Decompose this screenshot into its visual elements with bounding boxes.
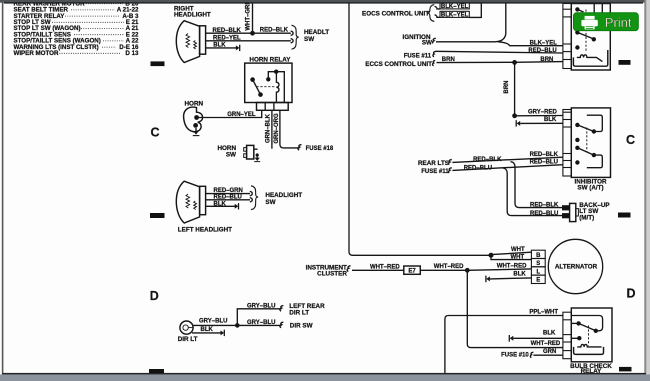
ignition switch inner base bbox=[573, 50, 607, 66]
svg-text:(M/T): (M/T) bbox=[579, 215, 594, 222]
bulb check connector column bbox=[563, 312, 571, 359]
inhibitor connector column bbox=[563, 110, 571, 177]
svg-text:E7: E7 bbox=[408, 269, 416, 275]
wire WHT-RED to alternator L bbox=[467, 269, 531, 270]
left headlight lamp body bbox=[176, 181, 199, 223]
bulb check relay contacts bbox=[571, 322, 578, 324]
right headlight filament 1 bbox=[186, 34, 190, 48]
ground arrow dir lt bbox=[221, 330, 225, 335]
boxed label BLK-YEL lower bbox=[440, 11, 469, 17]
wire BLK alternator E bbox=[490, 278, 532, 279]
svg-text:WHT–RED: WHT–RED bbox=[370, 264, 400, 270]
svg-text:SW: SW bbox=[226, 151, 236, 158]
svg-text:FUSE #18: FUSE #18 bbox=[306, 146, 334, 152]
svg-text:ALTERNATOR: ALTERNATOR bbox=[555, 264, 598, 271]
wire BLK inhibitor bbox=[520, 122, 563, 124]
svg-text:RED–BLK: RED–BLK bbox=[530, 203, 559, 209]
hook left rear dir lt bbox=[280, 306, 283, 312]
horn relay contact dot B bbox=[258, 92, 263, 97]
horn relay wire D right bbox=[276, 72, 284, 103]
inhibitor arms bbox=[577, 125, 594, 132]
ignition switch connector column bbox=[563, 4, 571, 69]
wire riser WHT-RED to bulb check relay bbox=[467, 270, 563, 347]
horn relay wire C up bbox=[268, 72, 276, 80]
svg-text:RED–BLK: RED–BLK bbox=[213, 28, 242, 34]
left headlight filament 2 bbox=[194, 201, 197, 210]
svg-text:BLK: BLK bbox=[214, 201, 227, 207]
node GRY-RED junction bbox=[512, 113, 517, 118]
index dotted leaders bbox=[52, 4, 124, 54]
svg-text:D: D bbox=[150, 289, 159, 303]
svg-text:RED–BLU: RED–BLU bbox=[530, 211, 558, 217]
horn relay switch arm bbox=[253, 80, 261, 95]
wire branch RED-BLK to back-up bbox=[511, 162, 563, 208]
inhibitor bottom hook bbox=[587, 155, 603, 168]
hook fuse 10 bbox=[530, 352, 533, 357]
registration tick right middle bbox=[618, 213, 631, 218]
svg-text:FUSE #11: FUSE #11 bbox=[421, 169, 449, 175]
scan bottom border line bbox=[2, 373, 646, 375]
svg-text:BLK–YEL: BLK–YEL bbox=[441, 4, 469, 10]
svg-text:DIR LT: DIR LT bbox=[178, 336, 198, 343]
right gray column bbox=[646, 0, 650, 381]
horn relay box bbox=[245, 63, 292, 102]
wire BLK right headlight bbox=[206, 47, 237, 49]
horn switch symbol bbox=[247, 145, 254, 159]
svg-text:WHT–RED: WHT–RED bbox=[434, 264, 464, 270]
brace EOCS bbox=[428, 5, 435, 22]
wire GRN-ORG drop to fuse 18 bbox=[280, 110, 300, 148]
svg-text:WHT–RED: WHT–RED bbox=[531, 341, 561, 347]
svg-text:BRN: BRN bbox=[442, 57, 455, 63]
ignition switch dashed link bbox=[585, 10, 587, 52]
svg-text:PPL–WHT: PPL–WHT bbox=[529, 310, 558, 316]
svg-text:REAR LTS: REAR LTS bbox=[418, 160, 449, 167]
wire riser to left rear dir lt bbox=[237, 309, 281, 326]
svg-text:WHT: WHT bbox=[511, 247, 525, 253]
wire WHT-RED to E7 bbox=[352, 269, 404, 271]
node BRN junction bbox=[512, 60, 517, 65]
wire RED-BLU fuse 11 lower bbox=[452, 165, 563, 171]
wire WHT-RED E7 to junction bbox=[420, 269, 467, 271]
brace to HEADLIGHT SW bbox=[251, 186, 258, 210]
horn relay connector tabs bbox=[257, 103, 289, 111]
svg-text:ECCS CONTROL UNIT: ECCS CONTROL UNIT bbox=[365, 61, 432, 68]
wire PPL-WHT from page bottom bbox=[445, 316, 563, 374]
bulb check relay breaker bbox=[577, 344, 601, 346]
alternator body bbox=[548, 239, 602, 293]
bulb check relay dashed link bbox=[588, 326, 590, 346]
ignition switch top stubs bbox=[593, 0, 595, 14]
hook dir sw bbox=[280, 322, 283, 328]
wire WHT to alternator S bbox=[491, 255, 531, 259]
svg-text:CLUSTER: CLUSTER bbox=[317, 270, 347, 277]
fuse 18 hook bbox=[298, 145, 301, 151]
svg-text:GRY–RED: GRY–RED bbox=[528, 110, 557, 116]
ground arrow inhibitor BLK bbox=[515, 120, 517, 126]
ignition switch breaker bbox=[577, 55, 603, 62]
svg-text:HEADLIGHT: HEADLIGHT bbox=[174, 12, 211, 19]
horn body bbox=[184, 107, 203, 132]
wire BRN riser bbox=[514, 62, 516, 115]
svg-text:GRY–BLU: GRY–BLU bbox=[247, 320, 275, 326]
wire RED-GRN left headlight bbox=[206, 193, 250, 195]
svg-text:BLK–YEL: BLK–YEL bbox=[530, 41, 558, 47]
wire WHT to alternator B bbox=[491, 252, 531, 254]
registration tick right bottom bbox=[619, 367, 632, 372]
alternator terminal blocks bbox=[531, 250, 545, 283]
svg-text:DIR LT: DIR LT bbox=[289, 309, 309, 316]
svg-text:GRY–BLU: GRY–BLU bbox=[247, 303, 275, 309]
svg-text:E: E bbox=[536, 278, 540, 284]
svg-text:RED–BLK: RED–BLK bbox=[473, 157, 502, 163]
svg-text:RED–BLU: RED–BLU bbox=[214, 195, 242, 201]
hook eccs bbox=[432, 60, 435, 65]
svg-text:SW: SW bbox=[304, 36, 314, 43]
wire GRY-RED bbox=[515, 115, 563, 117]
svg-text:RED–BLU: RED–BLU bbox=[464, 165, 492, 171]
bulb check relay inner base bbox=[574, 347, 604, 355]
svg-text:BLK–YEL: BLK–YEL bbox=[441, 12, 469, 18]
svg-text:HEADLT: HEADLT bbox=[304, 29, 329, 36]
wire RED-BLU left headlight bbox=[206, 199, 250, 201]
svg-text:WHT–RED: WHT–RED bbox=[497, 264, 527, 270]
wire GRN-BLK drop bbox=[271, 110, 273, 148]
wire GRN-YEL horn to relay bbox=[199, 110, 262, 117]
svg-text:BLK: BLK bbox=[201, 327, 214, 333]
ground arrow left headlight bbox=[235, 204, 239, 209]
svg-text:D: D bbox=[627, 286, 636, 300]
horn switch ground bbox=[256, 153, 259, 156]
svg-text:SW (A/T): SW (A/T) bbox=[577, 185, 603, 192]
svg-text:DIR SW: DIR SW bbox=[290, 323, 313, 330]
wire stubs EOCS to right bbox=[469, 3, 481, 18]
registration tick right top bbox=[619, 60, 631, 65]
left headlight filament 1 bbox=[186, 194, 190, 208]
wire BLK dir lt bbox=[192, 332, 221, 334]
registration tick left top bbox=[151, 61, 165, 66]
svg-text:SW: SW bbox=[422, 40, 432, 47]
ignition switch contacts bbox=[575, 7, 579, 11]
svg-text:RED–YEL: RED–YEL bbox=[213, 35, 241, 41]
node junction dir lt bbox=[235, 323, 240, 328]
svg-text:SW: SW bbox=[265, 199, 275, 206]
svg-text:GRN–BLK: GRN–BLK bbox=[265, 113, 271, 143]
wire GRN bulb check bbox=[533, 354, 563, 356]
print button bbox=[574, 13, 639, 31]
inhibitor switch box bbox=[571, 108, 610, 177]
svg-text:L: L bbox=[536, 269, 540, 275]
wire RED-BLU fuse 11 bbox=[436, 51, 563, 53]
top chrome band bbox=[0, 0, 645, 3]
hook ignition sw bbox=[433, 38, 436, 43]
wire branch RED-BLU to back-up bbox=[503, 168, 563, 216]
bulb check relay top link bbox=[571, 316, 602, 331]
hook rear lts bbox=[449, 160, 452, 165]
wire GRY-BLU dir lt bbox=[193, 324, 237, 326]
svg-text:B: B bbox=[536, 253, 541, 259]
svg-text:Print: Print bbox=[605, 15, 632, 30]
wire WHT-GRN riser bbox=[252, 3, 254, 33]
wire long vertical to WHT junction bbox=[349, 3, 491, 256]
wire BLK left headlight bbox=[206, 205, 235, 207]
horn relay contact dot A bbox=[250, 77, 255, 82]
svg-text:WHT–GRN: WHT–GRN bbox=[245, 0, 251, 30]
svg-text:C: C bbox=[151, 125, 160, 139]
svg-text:RED–GRN: RED–GRN bbox=[214, 188, 243, 194]
svg-text:GRY–BLU: GRY–BLU bbox=[199, 318, 227, 324]
boxed label BLK-YEL upper bbox=[440, 3, 469, 9]
svg-text:FUSE #11: FUSE #11 bbox=[404, 53, 432, 59]
hook instrument cluster bbox=[347, 266, 350, 272]
horn terminal dots bbox=[194, 115, 199, 120]
svg-text:HORN RELAY: HORN RELAY bbox=[249, 56, 291, 63]
back-up light switch connector bbox=[562, 205, 570, 210]
svg-text:BLK: BLK bbox=[513, 271, 526, 277]
registration tick left bottom bbox=[149, 369, 164, 373]
scan top border line bbox=[4, 2, 643, 3]
svg-text:RED–BLK: RED–BLK bbox=[260, 28, 289, 34]
inhibitor top hook bbox=[587, 115, 603, 131]
svg-text:S: S bbox=[536, 261, 540, 267]
node junction WHT-GRN / RED-BLK bbox=[250, 31, 255, 36]
svg-text:FUSE #10: FUSE #10 bbox=[501, 352, 529, 358]
bulb check relay box bbox=[571, 308, 612, 362]
svg-text:WHT: WHT bbox=[511, 255, 525, 261]
svg-text:D 13: D 13 bbox=[125, 50, 139, 57]
svg-text:GRN: GRN bbox=[543, 349, 556, 355]
svg-text:GRN–ORG: GRN–ORG bbox=[274, 113, 280, 144]
horn relay coil bbox=[276, 72, 279, 103]
wire RED-YEL right headlight bbox=[206, 40, 291, 42]
horn relay contact dot C bbox=[266, 77, 270, 81]
node WHT-RED junction bbox=[465, 268, 470, 273]
svg-text:RED–BLK: RED–BLK bbox=[530, 152, 559, 158]
DIR LT bulb bbox=[180, 321, 193, 334]
registration tick left middle bbox=[150, 213, 165, 218]
scan right border line bbox=[644, 0, 646, 374]
bottom scrollbar bar bbox=[0, 374, 650, 381]
hook fuse 11 lower bbox=[449, 168, 452, 173]
wire GRY-BLU to dir sw bbox=[237, 324, 281, 326]
horn ground bbox=[195, 128, 197, 131]
ground arrow alternator E bbox=[485, 276, 487, 283]
printer icon bbox=[585, 16, 595, 20]
wire BLK-YEL ignition sw bbox=[436, 3, 506, 42]
svg-text:LEFT HEADLIGHT: LEFT HEADLIGHT bbox=[178, 226, 232, 233]
svg-text:RED–BLU: RED–BLU bbox=[528, 48, 556, 54]
svg-text:RED–BLU: RED–BLU bbox=[530, 159, 558, 165]
right headlight lamp body bbox=[176, 21, 199, 63]
ignition switch box bbox=[571, 4, 610, 71]
hook fuse 11 top bbox=[433, 51, 436, 56]
horn relay dashed link bbox=[257, 86, 276, 88]
svg-text:EOCS CONTROL UNIT: EOCS CONTROL UNIT bbox=[362, 10, 429, 17]
index list top-left bbox=[14, 0, 140, 57]
wire RED-BLK right headlight bbox=[206, 32, 291, 34]
svg-text:BLK: BLK bbox=[213, 43, 226, 49]
inhibitor contacts left bbox=[575, 123, 579, 127]
wire BRN eccs bbox=[437, 61, 515, 63]
svg-text:BLK: BLK bbox=[544, 117, 557, 123]
horn relay contact dot D bbox=[274, 70, 278, 74]
ground arrow bulb check BLK bbox=[508, 335, 510, 342]
svg-text:GRN–YEL: GRN–YEL bbox=[227, 112, 256, 118]
wire BLK bulb check bbox=[513, 337, 563, 339]
inhibitor dashed link bbox=[586, 128, 588, 152]
brace to HEADLT SW bbox=[292, 25, 299, 49]
wire RED-BLK rear lts bbox=[452, 157, 563, 162]
svg-text:BRN: BRN bbox=[504, 81, 510, 94]
right headlight filament 2 bbox=[194, 41, 197, 50]
ground arrow right headlight bbox=[236, 45, 240, 50]
svg-text:WIPER MOTOR: WIPER MOTOR bbox=[14, 50, 59, 57]
node WHT junction bbox=[489, 253, 494, 258]
scan left border line bbox=[2, 0, 4, 374]
svg-text:BLK: BLK bbox=[543, 331, 556, 337]
svg-text:C: C bbox=[626, 133, 635, 147]
connector E7 bbox=[404, 266, 421, 274]
